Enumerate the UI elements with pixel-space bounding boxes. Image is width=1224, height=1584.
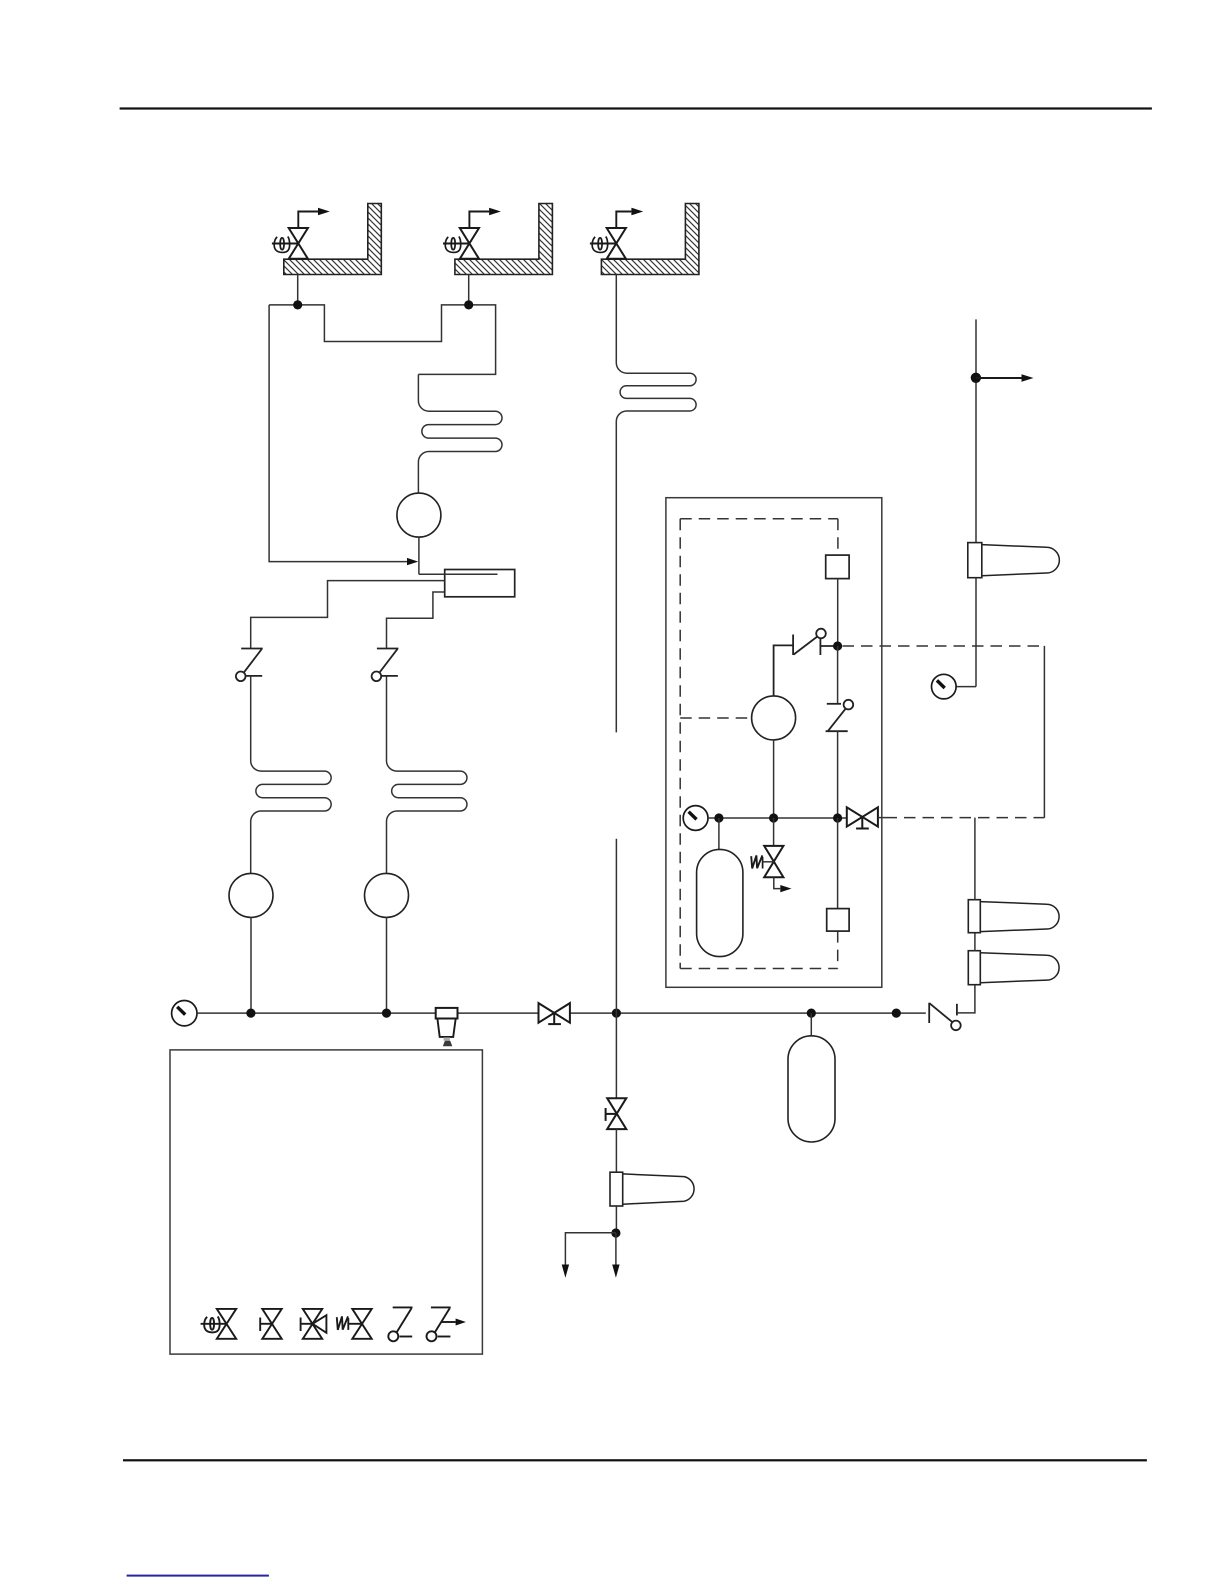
port block B1 — [826, 555, 849, 579]
silencer M3 — [968, 951, 1059, 985]
valve V1 (globe valve on header) — [539, 1003, 570, 1024]
wire: upper riser with outlet arrow — [975, 319, 977, 542]
vent line with arrow from HV3 — [616, 212, 631, 229]
legend symbol L5 (switch) — [388, 1307, 412, 1341]
wire: branch from E1 to switch S1 — [251, 581, 445, 649]
wire: drain branch below J6 — [615, 1013, 617, 1098]
wire: J7 to tank T1 — [810, 1013, 812, 1036]
node J8 — [892, 1009, 901, 1018]
outlet arrow at J3 — [976, 377, 1022, 379]
legend box — [170, 1050, 482, 1354]
coil HX1 (upper heat-exchanger coil) — [418, 374, 502, 493]
node J11 — [714, 813, 723, 822]
handwheel of HV3 — [592, 237, 607, 253]
pressure gauge PG1 — [172, 1001, 197, 1026]
valve HV1 (manual vent valve on W1) — [272, 228, 308, 259]
wire: U-link between node J1 and node J2 — [269, 305, 496, 375]
node J3 — [971, 373, 981, 383]
chamber wall W1 (hatched) — [284, 204, 382, 275]
handwheel of HV1 — [274, 237, 289, 253]
flow arrow FA1 — [407, 558, 418, 565]
bottom rule — [123, 1459, 1147, 1461]
port block B2 — [827, 909, 849, 932]
chamber wall W2 (hatched) — [455, 204, 553, 275]
coil HX4 (middle coil) — [616, 275, 696, 733]
pressure gauge PG3 — [932, 674, 957, 699]
node J7 — [807, 1009, 816, 1018]
wire: J13 to port block B2 — [837, 818, 839, 909]
switch S1 — [236, 649, 263, 682]
node J1 — [293, 300, 302, 309]
top rule — [120, 107, 1152, 109]
node J12 — [769, 813, 778, 822]
wire: P1 down to node J12 — [773, 740, 775, 818]
wire: silencer M4 to vent node J9 — [615, 1206, 617, 1233]
vent line with arrow from HV1 — [298, 212, 318, 229]
wire: between silencers M3 and M2 — [974, 933, 976, 951]
wire: V3 stub to dashed line — [878, 817, 886, 819]
instrument circle I3 — [365, 873, 409, 917]
node J13 — [833, 813, 842, 822]
pump circle P1 — [752, 696, 796, 740]
wire: valve V2 to silencer M4 — [615, 1129, 617, 1172]
wire: left column down from J1 with flow arrow into pump line — [269, 305, 407, 562]
wire: B1 down to node J10 — [837, 579, 839, 646]
node J2 — [464, 300, 473, 309]
legend symbol L1 (handwheel valve) — [201, 1309, 237, 1339]
node J4 — [246, 1009, 255, 1018]
legend symbol L3 (three-way valve) — [301, 1309, 327, 1339]
ejector block E1 — [445, 570, 515, 597]
vent arrow A2 — [562, 1265, 569, 1278]
wire: coupling up to silencer column — [957, 985, 975, 1013]
wire: silencer M1 down to gauge PG3 — [975, 578, 977, 687]
wire: drop from W1 — [297, 275, 299, 305]
valve V3 (signal isolation valve) — [847, 807, 878, 828]
wire: PG3 link — [956, 686, 976, 688]
wire: drop from W2 — [468, 275, 470, 305]
chamber wall W3 (hatched) — [601, 204, 699, 275]
wire: box manifold line — [708, 817, 847, 819]
node J5 — [382, 1009, 391, 1018]
wire: J10 down to switch S4 — [837, 646, 839, 704]
footer link underline (blue) — [127, 1575, 269, 1577]
filter F1 on header — [436, 1008, 458, 1046]
dashed signal line top (J10 to right riser) — [843, 645, 1045, 647]
vent arrow A3 — [612, 1265, 619, 1278]
spring of RV1 — [751, 855, 762, 868]
wire: J12 to relief valve RV1 — [773, 818, 775, 846]
vent line with arrow from HV2 — [469, 212, 489, 229]
control box — [666, 498, 882, 988]
handwheel of HV2 — [445, 237, 460, 253]
node J6 — [612, 1009, 621, 1018]
silencer M4 — [610, 1172, 694, 1206]
node J9 — [611, 1228, 620, 1237]
silencer M2 — [968, 900, 1059, 933]
instrument circle I2 — [229, 873, 273, 917]
wire: I2 to main header — [250, 917, 252, 1013]
valve HV3 — [590, 228, 626, 259]
wire: pipe into E1 (ends inside) — [419, 573, 498, 575]
wire: branch from E1 to switch S2 — [387, 592, 445, 649]
silencer M1 — [968, 543, 1060, 578]
wire: vent branch left — [565, 1233, 616, 1265]
dashed enclosure — [680, 519, 838, 969]
wire: I3 to main header — [386, 917, 388, 1013]
tank T2 (capsule) — [697, 849, 743, 956]
switch S4 — [826, 700, 854, 731]
legend symbol L4 (spring relief valve) — [337, 1309, 372, 1339]
dashed signal line bottom — [886, 817, 1045, 819]
coil HX2 (left lower coil) — [251, 677, 331, 874]
wire: main air header — [197, 1012, 539, 1014]
valve HV2 — [443, 228, 479, 259]
wire: J11 to tank T2 — [718, 818, 720, 849]
pressure gauge PG2 — [683, 806, 708, 831]
wire: silencer M2 up to dashed bottom line — [974, 818, 976, 900]
wire: lower segment of W3 drop — [615, 839, 617, 1013]
vent of RV1 — [774, 877, 781, 888]
coil HX3 (right lower coil) — [387, 677, 467, 874]
tank T1 (air receiver capsule) — [788, 1036, 835, 1142]
switch S3 (lever switch) — [774, 629, 838, 696]
node J10 — [833, 641, 842, 650]
legend symbol L2 (stem valve) — [260, 1309, 282, 1339]
switch S2 — [372, 649, 399, 682]
wire: right signal riser (solid) — [1043, 646, 1045, 818]
wire: FI1 down and into ejector E1 — [418, 537, 420, 574]
relief valve RV1 — [764, 846, 783, 877]
instrument circle FI1 — [397, 493, 441, 537]
coupling K1 (quick-release on header end) — [929, 1003, 961, 1031]
wire: vent straight down — [615, 1233, 617, 1265]
legend symbol L6 (switch with vent arrow) — [427, 1307, 456, 1341]
valve V2 (drain valve) — [606, 1098, 627, 1129]
wire: S4 down to node J13 — [837, 731, 839, 818]
